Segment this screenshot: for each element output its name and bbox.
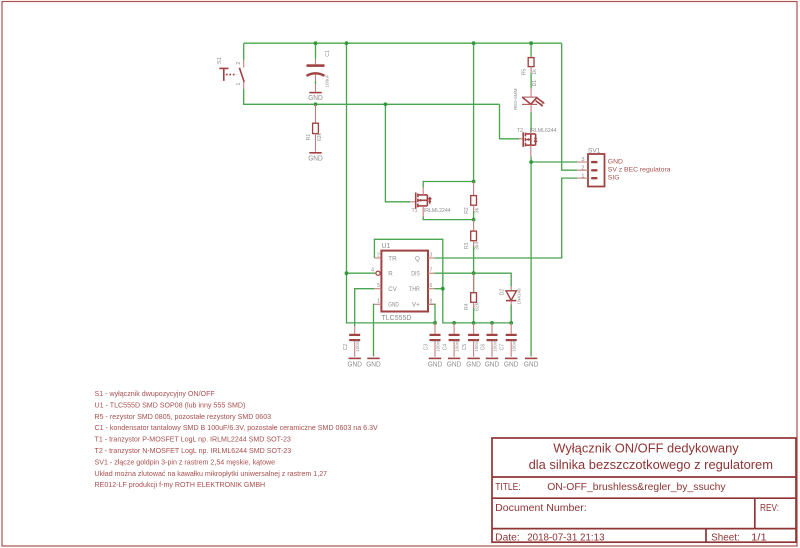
svg-text:2: 2 (581, 165, 584, 171)
svg-text:4: 4 (371, 268, 374, 274)
diode D2 1N4148 (499, 287, 521, 305)
resistor R2 (464, 182, 480, 214)
svg-text:ON-OFF_brushless&regler_by_ssu: ON-OFF_brushless&regler_by_ssuchy (547, 482, 726, 493)
svg-text:TLC555D: TLC555D (382, 315, 412, 322)
svg-text:R4: R4 (464, 303, 470, 310)
wire T2 source down to GND (530, 162, 532, 357)
svg-text:100nF: 100nF (436, 339, 441, 352)
svg-text:C7: C7 (500, 344, 506, 351)
ground below C1 (308, 84, 323, 102)
svg-text:R2: R2 (464, 207, 470, 214)
wire R2 bottom to junction (473, 212, 475, 220)
svg-text:RED-5MM: RED-5MM (513, 88, 518, 110)
svg-text:Wyłącznik ON/OFF dedykowany: Wyłącznik ON/OFF dedykowany (553, 441, 739, 456)
junction T1 source (472, 180, 476, 184)
wire T1 gate branch (385, 104, 410, 202)
capacitor C3 (423, 323, 440, 357)
svg-text:RE012-LF produkcji f-my ROTH E: RE012-LF produkcji f-my ROTH ELEKTRONIK … (95, 481, 266, 489)
svg-text:C1: C1 (325, 50, 331, 57)
svg-text:SV1 - złącze goldpin 3-pin z r: SV1 - złącze goldpin 3-pin z rastrem 2,5… (95, 458, 276, 466)
svg-text:THR: THR (409, 286, 420, 293)
wire T1 source horizontal (423, 182, 473, 188)
svg-text:TR: TR (388, 255, 397, 262)
svg-text:DIS: DIS (411, 271, 420, 278)
wire CV to C2 (355, 289, 375, 326)
svg-text:1k: 1k (532, 69, 538, 75)
svg-text:R: R (388, 271, 393, 278)
svg-text:62k: 62k (475, 302, 481, 311)
svg-text:100uF: 100uF (324, 74, 329, 87)
svg-text:T2: T2 (517, 128, 523, 134)
svg-text:R5: R5 (522, 69, 528, 76)
svg-text:1: 1 (236, 82, 242, 85)
svg-text:Document Number:: Document Number: (495, 503, 587, 514)
wire T1 source column (473, 43, 475, 181)
wire DIS row to D2 (434, 273, 511, 286)
wire U1 GND column (373, 304, 376, 356)
wire V+ column (428, 304, 435, 323)
svg-text:1N4148: 1N4148 (517, 288, 522, 305)
svg-text:Q: Q (415, 255, 420, 262)
capacitor C6 (480, 323, 497, 357)
svg-text:8: 8 (429, 299, 432, 305)
svg-text:GND: GND (308, 93, 323, 102)
svg-text:100nF: 100nF (455, 339, 460, 352)
wire top positive rail (244, 42, 562, 44)
resistor R4 (464, 273, 480, 311)
junction rail A V+ C3 (433, 321, 437, 325)
svg-text:7: 7 (429, 268, 432, 274)
svg-text:100nF: 100nF (512, 339, 517, 352)
capacitor C1 (307, 50, 332, 87)
svg-text:R3: R3 (464, 242, 470, 249)
svg-text:GND: GND (447, 359, 462, 368)
junction rail B C4 (452, 321, 456, 325)
notes text block (95, 390, 379, 489)
svg-text:3: 3 (429, 252, 432, 258)
ground below C6 (485, 358, 500, 368)
ground U1 GND pin (366, 358, 381, 368)
svg-text:SV1: SV1 (588, 147, 601, 154)
junction top rail left vertical (345, 41, 349, 45)
svg-text:V+: V+ (412, 302, 420, 309)
wire R pin to left vertical (347, 272, 376, 274)
svg-text:1: 1 (377, 299, 380, 305)
svg-text:GND: GND (366, 359, 381, 368)
junction T2 source SV1 (529, 160, 533, 164)
svg-text:GND: GND (428, 359, 443, 368)
resistor R3 (464, 220, 480, 250)
junction rail2 R1 (314, 102, 318, 106)
transistor T2 IRLML6244 (517, 128, 557, 157)
ground below R1 (308, 153, 323, 163)
svg-text:1/1: 1/1 (751, 533, 767, 544)
resistor R1 (306, 104, 323, 151)
svg-text:3k4: 3k4 (475, 242, 481, 250)
wire C1 top (315, 43, 317, 59)
svg-text:S1 - wyłącznik dwupozycyjny ON: S1 - wyłącznik dwupozycyjny ON/OFF (95, 390, 216, 398)
svg-text:SIG: SIG (608, 174, 620, 181)
wire LED to T2 drain (530, 112, 532, 130)
svg-text:5: 5 (377, 283, 380, 289)
wire left long vertical to bottom rail A (347, 43, 436, 323)
svg-text:GND: GND (524, 359, 539, 368)
svg-text:GND: GND (388, 302, 399, 309)
capacitor C4 (442, 323, 459, 357)
junction rail B C6 (490, 321, 494, 325)
ground below C7 (504, 358, 519, 368)
junction THR row (441, 287, 445, 291)
transistor T1 IRLML2244 (410, 188, 451, 217)
svg-text:S1: S1 (217, 57, 223, 64)
junction top rail R5 (529, 41, 533, 45)
wire R3 bottom to DIS row (473, 247, 475, 274)
wire right drop to SV1 pin2 (562, 43, 578, 170)
wire switch bottom to rail2 (244, 89, 500, 104)
svg-text:D2: D2 (499, 289, 505, 296)
svg-text:IRLML2244: IRLML2244 (424, 208, 451, 214)
svg-text:C3: C3 (423, 344, 429, 351)
wire C1 gnd gap (315, 81, 317, 84)
junction rail2 T1 gate (384, 102, 388, 106)
wire TR-THR link (374, 239, 511, 323)
svg-text:2018-07-31 21:13: 2018-07-31 21:13 (527, 533, 605, 544)
capacitor C7 (500, 323, 517, 357)
svg-text:GND: GND (347, 359, 362, 368)
op-amp U1 TLC555D (371, 243, 434, 322)
svg-text:3k: 3k (475, 207, 481, 213)
svg-text:D1: D1 (532, 80, 538, 87)
svg-text:Układ można zlutować na kawałk: Układ można zlutować na kawałku mikropły… (95, 470, 328, 478)
svg-text:T1: T1 (412, 208, 418, 214)
wire D2 bottom (510, 305, 512, 323)
wire R5 top (530, 43, 532, 56)
svg-text:U1 - TLC555D SMD SOP08 (lub in: U1 - TLC555D SMD SOP08 (lub inny 555 SMD… (95, 401, 246, 409)
svg-text:IRLML6244: IRLML6244 (530, 128, 557, 134)
wire R5 to LED (530, 73, 532, 88)
svg-text:6: 6 (429, 283, 432, 289)
capacitor C5 (462, 323, 479, 357)
svg-text:TITLE:: TITLE: (495, 482, 521, 493)
resistor R5 (522, 57, 539, 76)
wire R4 top from DIS junction (473, 273, 475, 292)
svg-text:CV: CV (388, 286, 397, 293)
ground below C3 (428, 358, 443, 368)
svg-text:GND: GND (504, 359, 519, 368)
wire THR pin to link (434, 288, 442, 290)
svg-text:C1 - kondensator tantalowy SMD: C1 - kondensator tantalowy SMD B 100uF/6… (95, 424, 379, 432)
ground below C5 (466, 358, 481, 368)
ground T2 source column (524, 358, 539, 368)
title block (492, 438, 796, 542)
ground below C4 (447, 358, 462, 368)
ground below C2 (347, 358, 362, 368)
junction DIS row (472, 271, 476, 275)
svg-text:T2 - tranzystor N-MOSFET LogL: T2 - tranzystor N-MOSFET LogL np. IRLML6… (95, 447, 292, 455)
svg-text:3: 3 (581, 157, 584, 163)
title block texts (495, 441, 779, 544)
wire switch top drop (243, 43, 245, 60)
capacitor C2 (343, 326, 360, 357)
wire rail2 end to T2 gate (500, 104, 520, 139)
junction rail B C7 D2 (509, 321, 513, 325)
svg-text:T1 - tranzystor P-MOSFET LogL: T1 - tranzystor P-MOSFET LogL np. IRLML2… (95, 436, 291, 444)
svg-text:2: 2 (377, 252, 380, 258)
svg-text:Sheet:: Sheet: (711, 533, 740, 544)
svg-text:GND: GND (485, 359, 500, 368)
svg-text:C4: C4 (442, 344, 448, 351)
svg-text:2: 2 (236, 62, 242, 65)
wire T2 source to SV1 pin3 (531, 157, 577, 163)
svg-text:C6: C6 (480, 344, 486, 351)
svg-text:Date:: Date: (495, 533, 520, 544)
wire R4 bottom (473, 308, 475, 323)
junction T1 drain (472, 218, 476, 222)
svg-text:C2: C2 (343, 344, 349, 351)
junction rail B C5 R4 (472, 321, 476, 325)
svg-text:U1: U1 (382, 243, 391, 250)
junction R pin left (345, 271, 349, 275)
svg-text:100nF: 100nF (493, 339, 498, 352)
svg-text:C5: C5 (462, 344, 468, 351)
svg-text:dla silnika bezszczotkowego z: dla silnika bezszczotkowego z regulatore… (529, 457, 773, 472)
svg-text:1: 1 (581, 173, 584, 179)
junction top rail C1 (314, 41, 318, 45)
svg-text:GND: GND (308, 153, 323, 162)
svg-text:100nF: 100nF (355, 339, 360, 352)
wire T1 drain horizontal (423, 217, 473, 220)
svg-text:R1: R1 (306, 134, 312, 141)
svg-text:SV z BEC regulatora: SV z BEC regulatora (608, 167, 671, 174)
svg-text:REV:: REV: (760, 503, 779, 514)
junction top rail T1 column (472, 41, 476, 45)
LED D1 (513, 80, 545, 112)
connector SV1 (577, 147, 671, 186)
switch S1 (217, 57, 244, 89)
svg-text:62k: 62k (317, 132, 323, 141)
svg-text:R5 - rezystor SMD 0805, pozost: R5 - rezystor SMD 0805, pozostałe rezyst… (95, 413, 272, 421)
wire SV1 pin1 to Q row (434, 178, 577, 258)
svg-text:GND: GND (608, 158, 623, 165)
svg-text:100nF: 100nF (474, 339, 479, 352)
svg-text:GND: GND (466, 359, 481, 368)
